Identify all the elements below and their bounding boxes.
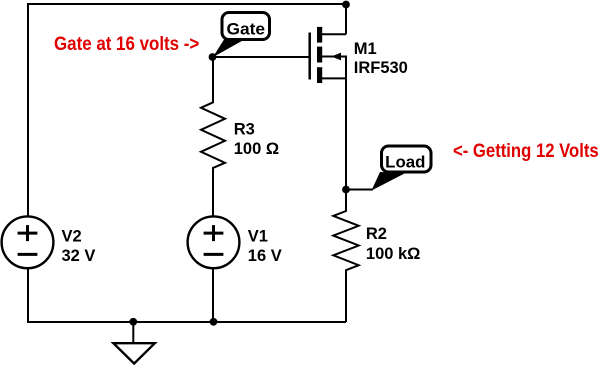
svg-text:Gate at 16 volts ->: Gate at 16 volts -> <box>54 33 199 55</box>
svg-text:Gate: Gate <box>227 21 266 39</box>
svg-text:M1: M1 <box>354 40 377 58</box>
svg-text:Load: Load <box>385 154 425 172</box>
svg-text:32 V: 32 V <box>62 247 96 265</box>
svg-text:<- Getting 12 Volts: <- Getting 12 Volts <box>453 140 599 162</box>
svg-text:V1: V1 <box>248 228 268 246</box>
svg-text:16 V: 16 V <box>248 247 282 265</box>
svg-text:R2: R2 <box>366 225 387 243</box>
svg-text:V2: V2 <box>62 228 82 246</box>
svg-text:R3: R3 <box>234 120 255 138</box>
svg-text:IRF530: IRF530 <box>354 59 408 77</box>
svg-text:100 Ω: 100 Ω <box>234 140 279 158</box>
svg-text:100 kΩ: 100 kΩ <box>366 245 421 263</box>
